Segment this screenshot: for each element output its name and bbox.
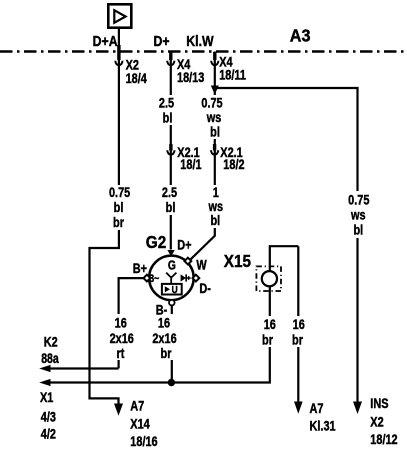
svg-text:A3: A3 — [290, 26, 311, 46]
svg-text:16: 16 — [264, 317, 276, 333]
svg-text:4/2: 4/2 — [41, 426, 56, 442]
svg-text:3~: 3~ — [149, 273, 159, 285]
svg-text:br: br — [113, 215, 124, 231]
svg-text:INS: INS — [370, 396, 388, 412]
svg-text:U: U — [172, 284, 178, 296]
svg-text:2x16: 2x16 — [110, 331, 134, 347]
svg-text:2.5: 2.5 — [162, 185, 177, 201]
svg-text:18/2: 18/2 — [223, 157, 244, 173]
svg-text:Kl.W: Kl.W — [186, 33, 213, 49]
svg-text:br: br — [292, 332, 303, 348]
svg-text:D+: D+ — [153, 33, 169, 49]
svg-text:bl: bl — [210, 124, 220, 140]
svg-text:G2: G2 — [146, 232, 166, 252]
svg-text:bl: bl — [163, 110, 173, 126]
svg-text:Kl.31: Kl.31 — [310, 418, 336, 434]
svg-text:2.5: 2.5 — [159, 95, 174, 111]
svg-text:A7: A7 — [310, 401, 324, 417]
svg-text:18/16: 18/16 — [130, 434, 157, 450]
svg-text:bl: bl — [210, 213, 220, 229]
svg-text:G: G — [168, 260, 176, 273]
svg-text:0.75: 0.75 — [109, 185, 130, 201]
svg-text:18/13: 18/13 — [177, 70, 204, 86]
svg-text:D+: D+ — [177, 237, 191, 253]
svg-text:4/3: 4/3 — [41, 409, 56, 425]
svg-text:K2: K2 — [44, 334, 58, 350]
svg-text:D+A: D+A — [93, 33, 118, 49]
svg-text:W: W — [196, 257, 206, 273]
svg-text:B+: B+ — [133, 261, 147, 277]
svg-text:A7: A7 — [130, 398, 144, 414]
svg-text:88a: 88a — [41, 351, 59, 367]
svg-text:18/12: 18/12 — [370, 432, 397, 448]
svg-text:B-: B- — [156, 302, 168, 318]
svg-text:16: 16 — [293, 317, 305, 333]
svg-text:0.75: 0.75 — [348, 192, 369, 208]
svg-text:X15: X15 — [224, 251, 251, 271]
svg-text:rt: rt — [117, 346, 126, 362]
svg-text:br: br — [161, 346, 172, 362]
svg-text:ws: ws — [350, 207, 365, 223]
svg-text:18/1: 18/1 — [180, 157, 201, 173]
svg-text:18/11: 18/11 — [219, 67, 246, 83]
svg-text:ws: ws — [206, 110, 221, 126]
svg-text:0.75: 0.75 — [201, 95, 222, 111]
svg-text:bl: bl — [166, 200, 176, 216]
svg-text:16: 16 — [115, 315, 127, 331]
svg-text:X1: X1 — [40, 390, 53, 406]
svg-text:X14: X14 — [130, 416, 149, 432]
svg-text:X2: X2 — [370, 414, 383, 430]
svg-text:bl: bl — [353, 222, 363, 238]
svg-text:br: br — [262, 332, 273, 348]
svg-text:bl: bl — [114, 200, 124, 216]
svg-text:18/4: 18/4 — [126, 71, 147, 87]
svg-text:2x16: 2x16 — [152, 331, 176, 347]
svg-text:D-: D- — [199, 281, 211, 297]
